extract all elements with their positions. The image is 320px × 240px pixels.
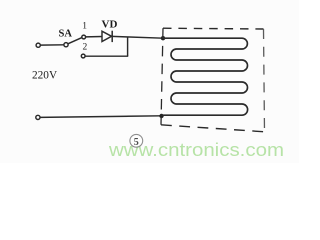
svg-text:2: 2: [83, 43, 88, 53]
switch SA contact 2 (open circle): [81, 54, 85, 58]
svg-text:5: 5: [134, 137, 139, 148]
terminal: AC line bottom (open circle): [36, 115, 40, 119]
switch SA contact 1 (open circle): [82, 35, 86, 39]
wire: bypass vertical from node after VD: [127, 37, 129, 56]
wire: contact 1 to diode anode: [86, 36, 103, 38]
heater enclosure (dashed box): left border: [161, 28, 163, 125]
switch SA arm: [68, 38, 82, 44]
figure number 5 (circled): [130, 134, 143, 147]
wire: bypass horizontal to contact 2: [85, 55, 128, 57]
diode VD triangle: [102, 31, 112, 41]
heater enclosure (dashed box): top border: [163, 27, 264, 30]
junction: top wire enters heater enclosure: [161, 36, 165, 40]
junction: bottom wire enters heater enclosure: [159, 114, 163, 118]
heater enclosure (dashed box): bottom border: [161, 125, 265, 132]
terminal: AC line top (open circle): [36, 43, 40, 47]
svg-text:VD: VD: [102, 18, 118, 30]
svg-text:SA: SA: [59, 28, 73, 39]
svg-text:220V: 220V: [32, 70, 58, 82]
wire: top terminal to SA pivot: [40, 44, 64, 46]
heating element EH (serpentine): [162, 38, 248, 115]
diode VD cathode bar: [111, 31, 113, 42]
wire: diode cathode to heater box: [112, 36, 163, 38]
svg-text:1: 1: [82, 22, 87, 32]
heater enclosure (dashed box): right border: [264, 29, 265, 132]
wire: bottom terminal to heater box: [40, 116, 162, 118]
switch SA pivot (open circle): [64, 43, 68, 47]
